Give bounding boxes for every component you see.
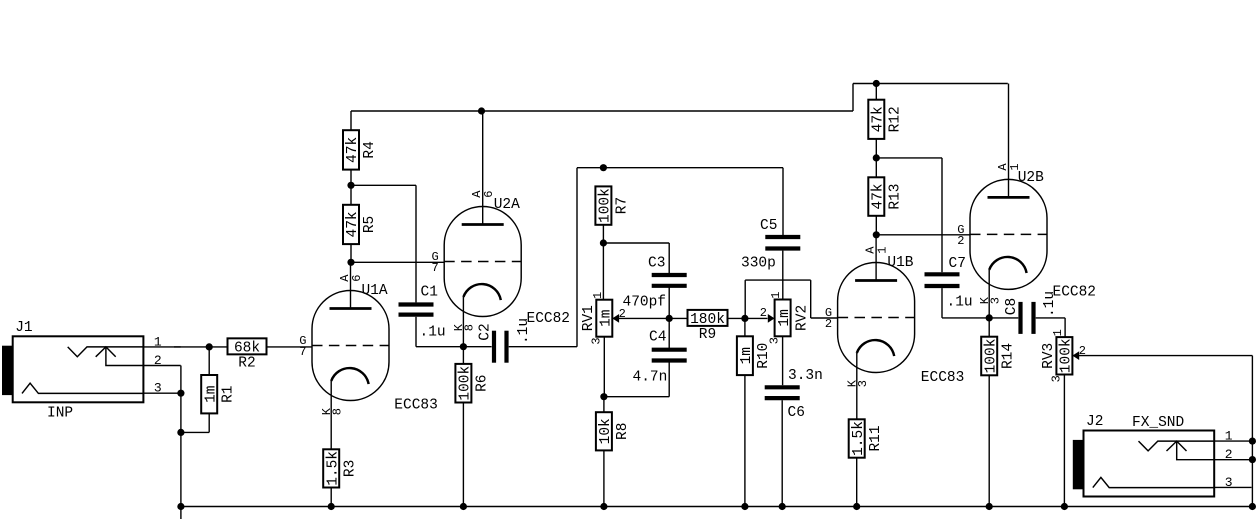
triode U1A: [299, 262, 389, 449]
svg-text:R5: R5: [362, 216, 378, 233]
junction R5/U1A anode/U2A grid: [347, 259, 354, 266]
svg-text:2: 2: [1225, 447, 1233, 462]
wire: [852, 84, 854, 112]
svg-text:7: 7: [299, 345, 306, 359]
U2B envelope: [970, 179, 1047, 289]
J1 pin 3: [143, 392, 180, 394]
wire: [853, 83, 1008, 85]
svg-text:2: 2: [825, 317, 832, 331]
J1 pin 1: [143, 346, 180, 348]
resistor R3 (1.5k): [323, 449, 358, 506]
wire: [941, 158, 943, 272]
U1A cathode: [331, 368, 368, 384]
U2B cathode lead: [988, 270, 990, 318]
wire: [810, 280, 812, 318]
J2 pin 1: [1214, 440, 1251, 442]
RV3 wiper arrow: [1072, 351, 1079, 360]
U1A cathode lead: [330, 381, 332, 449]
svg-text:2: 2: [760, 306, 767, 320]
junction R13/U1B anode/U2B grid: [873, 231, 880, 238]
wire: [350, 111, 352, 130]
svg-text:R1: R1: [220, 385, 236, 402]
wire: [180, 366, 182, 507]
svg-text:ECC82: ECC82: [1053, 285, 1097, 301]
capacitor C7 (.1u): [925, 256, 973, 311]
resistor R14 (100k): [981, 318, 1016, 507]
U2B cathode: [989, 257, 1026, 273]
J2 tip contact: [1139, 441, 1215, 451]
capacitor C6 (3.3n): [765, 368, 823, 421]
wire: [1251, 356, 1253, 507]
junction GND rail left: [177, 503, 184, 510]
svg-text:47k: 47k: [871, 106, 887, 132]
U1B cathode lead: [856, 353, 858, 419]
svg-text:R9: R9: [699, 327, 716, 343]
wire: [668, 243, 670, 275]
junction U2B cathode/R14/C8: [986, 314, 993, 321]
resistor R8 (10k): [596, 397, 631, 507]
U2B grid: [970, 233, 1047, 235]
junction R1 bottom: [177, 429, 184, 436]
J2 body: [1084, 431, 1215, 497]
junction C6/GND: [779, 503, 786, 510]
svg-text:1: 1: [769, 292, 783, 299]
svg-text:RV3: RV3: [1041, 343, 1057, 369]
wire: [1072, 355, 1252, 357]
svg-text:47k: 47k: [345, 211, 361, 237]
junction RV1 wiper/C3/C4/R9: [666, 315, 673, 322]
junction R9/R10/RV2 wiper/C5: [741, 315, 748, 322]
svg-text:.1u: .1u: [516, 318, 532, 344]
resistor R2 (68k): [228, 338, 267, 371]
connector J1 (INP jack): [2, 320, 181, 403]
U2A anode lead: [482, 111, 484, 225]
junction R7 top: [600, 164, 607, 171]
svg-text:3: 3: [589, 337, 603, 344]
svg-text:U1A: U1A: [362, 283, 388, 299]
resistor R4 (47k): [343, 130, 378, 169]
resistor R11 (1.5k): [849, 419, 884, 506]
wire: [1064, 318, 1066, 337]
svg-text:3: 3: [1050, 375, 1064, 382]
svg-text:1m: 1m: [203, 385, 219, 402]
svg-text:R14: R14: [1000, 343, 1016, 369]
junction R6/GND: [460, 503, 467, 510]
wire: [602, 243, 604, 300]
wire: [782, 251, 784, 300]
svg-text:470pf: 470pf: [623, 295, 667, 311]
wire: [603, 337, 605, 397]
svg-text:J1: J1: [15, 320, 32, 336]
svg-text:68k: 68k: [234, 341, 260, 357]
svg-text:FX_SND: FX_SND: [1132, 415, 1184, 431]
wire: [668, 361, 670, 397]
wire: [174, 346, 228, 348]
J1 tip contact: [68, 347, 144, 357]
junction R4/R5/C1: [347, 182, 354, 189]
svg-text:R11: R11: [868, 425, 884, 451]
wire: [350, 244, 352, 262]
svg-text:C2: C2: [477, 323, 493, 340]
junction R8/GND: [600, 503, 607, 510]
svg-text:3: 3: [154, 381, 162, 396]
svg-text:3: 3: [768, 337, 782, 344]
wire: [875, 216, 877, 235]
potentiometer RV1 (1m): [581, 292, 626, 345]
svg-text:47k: 47k: [345, 137, 361, 163]
resistor R6 (100k): [455, 347, 490, 507]
svg-text:3.3n: 3.3n: [788, 368, 823, 384]
capacitor C2 (.1u): [477, 318, 532, 363]
J2 switch arrow: [1167, 441, 1187, 451]
svg-text:100k: 100k: [458, 366, 474, 401]
junction R12 top: [873, 80, 880, 87]
svg-text:8: 8: [331, 408, 345, 415]
svg-text:C4: C4: [649, 330, 666, 346]
wire: [267, 346, 313, 348]
svg-text:1.5k: 1.5k: [851, 421, 867, 456]
svg-text:R7: R7: [615, 197, 631, 214]
svg-text:8: 8: [463, 324, 477, 331]
U1B plate: [855, 279, 897, 282]
wire: [416, 346, 492, 348]
triode U2B: [957, 84, 1047, 318]
wire: [744, 280, 746, 318]
wire: [603, 242, 669, 244]
svg-text:ECC83: ECC83: [394, 397, 438, 413]
wire: [612, 317, 687, 319]
svg-text:1: 1: [875, 246, 889, 253]
connector J2 (FX_SND jack): [1073, 414, 1252, 497]
junction J2 pin2: [1249, 456, 1256, 463]
J2 pin 2: [1214, 459, 1251, 461]
wire: [875, 139, 877, 158]
svg-text:6: 6: [350, 274, 364, 281]
J2 pin 3: [1214, 486, 1251, 488]
capacitor C8 (.1u): [1004, 291, 1058, 334]
svg-text:100k: 100k: [983, 339, 999, 374]
resistor R10 (1m): [737, 318, 772, 506]
potentiometer RV2 (1m): [760, 292, 811, 345]
junction U2A cathode/R6: [460, 343, 467, 350]
wire: [351, 110, 853, 112]
wire: [1063, 375, 1065, 507]
svg-text:1: 1: [1225, 429, 1233, 444]
svg-text:R2: R2: [238, 356, 255, 372]
wire: [351, 184, 416, 186]
svg-text:ECC82: ECC82: [527, 311, 571, 327]
U1B envelope: [838, 263, 915, 373]
wire: [941, 288, 943, 318]
U1A envelope: [312, 291, 389, 401]
svg-text:R12: R12: [888, 106, 904, 132]
U2A envelope: [444, 207, 521, 317]
wire: [350, 170, 352, 186]
svg-text:1m: 1m: [777, 309, 793, 326]
svg-text:3: 3: [856, 380, 870, 387]
J1 ring contact: [22, 383, 143, 393]
wire: [876, 157, 942, 159]
U1B anode lead: [875, 235, 877, 281]
svg-text:C1: C1: [421, 285, 438, 301]
svg-text:.1u: .1u: [1042, 291, 1058, 317]
junction R7/RV1/C3: [600, 239, 607, 246]
svg-text:1: 1: [154, 334, 162, 349]
wire: [208, 413, 210, 432]
junction J2 pin1: [1249, 438, 1256, 445]
svg-text:R13: R13: [888, 183, 904, 209]
capacitor C3 (470pf): [623, 256, 687, 311]
svg-text:.1u: .1u: [420, 325, 446, 341]
svg-text:1m: 1m: [739, 347, 755, 364]
wire: [576, 168, 578, 347]
svg-text:J2: J2: [1086, 414, 1103, 430]
svg-text:1.5k: 1.5k: [325, 451, 341, 486]
resistor R12 (47k): [868, 84, 903, 139]
junction R11/GND: [853, 503, 860, 510]
junction U2A anode: [478, 107, 485, 114]
junction J1.1/R1/R2: [206, 343, 213, 350]
svg-text:100k: 100k: [598, 188, 614, 223]
U1B cathode: [857, 340, 894, 356]
U2A cathode: [463, 284, 500, 300]
wire: [602, 225, 604, 243]
svg-text:100k: 100k: [1059, 338, 1075, 373]
svg-text:C3: C3: [648, 256, 665, 272]
resistor R5 (47k): [343, 185, 378, 244]
svg-text:C8: C8: [1004, 298, 1020, 315]
resistor R1 (1m): [201, 347, 236, 414]
wire: [415, 317, 417, 347]
RV1 wiper arrow: [612, 314, 619, 323]
wire: [811, 317, 838, 319]
svg-text:3: 3: [1225, 475, 1233, 490]
svg-text:C6: C6: [788, 405, 805, 421]
svg-text:2: 2: [957, 234, 964, 248]
U2B anode lead: [1008, 84, 1010, 198]
svg-text:C7: C7: [949, 256, 966, 272]
triode U1B: [825, 235, 915, 419]
junction R10/GND: [741, 503, 748, 510]
wire: [415, 185, 417, 302]
wire: [942, 317, 1018, 319]
svg-text:1: 1: [591, 292, 605, 299]
junction RV3.3/GND rail: [1061, 503, 1068, 510]
J2 sleeve block: [1073, 440, 1083, 489]
svg-text:2: 2: [154, 353, 162, 368]
wire: [577, 167, 783, 169]
junction J1.3 to pin2 column: [177, 390, 184, 397]
svg-text:R8: R8: [615, 423, 631, 440]
svg-text:RV2: RV2: [794, 305, 810, 331]
junction RV1.3/R8/C4: [600, 393, 607, 400]
U1B grid: [838, 317, 915, 319]
capacitor C1 (.1u): [399, 285, 446, 341]
U2A plate: [462, 223, 504, 226]
svg-text:INP: INP: [47, 406, 73, 422]
resistor R13 (47k): [868, 158, 903, 216]
junction R3/GND: [328, 503, 335, 510]
J2 ring contact: [1093, 477, 1214, 487]
ground stub below rail: [180, 507, 182, 519]
wire: [181, 431, 209, 433]
svg-text:R4: R4: [362, 141, 378, 158]
svg-text:C5: C5: [760, 218, 777, 234]
wire: [782, 336, 784, 385]
svg-text:.1u: .1u: [947, 295, 973, 311]
svg-text:R10: R10: [756, 343, 772, 369]
J1 sleeve block: [2, 346, 12, 395]
svg-text:180k: 180k: [690, 312, 725, 328]
J1 body: [13, 336, 144, 402]
RV2 wiper arrow: [768, 314, 775, 323]
wire: [351, 261, 444, 263]
junction R12/R13/C7: [873, 154, 880, 161]
wire: [745, 279, 811, 281]
wire: [668, 286, 670, 350]
svg-text:7: 7: [431, 261, 438, 275]
svg-text:1: 1: [1051, 329, 1065, 336]
wire: [604, 396, 669, 398]
wire: [782, 168, 784, 235]
capacitor C5 (330p): [741, 218, 800, 272]
junction J2 pin3/GND rail: [1249, 503, 1256, 510]
svg-text:4.7n: 4.7n: [633, 369, 668, 385]
resistor R9 (180k): [688, 310, 728, 343]
J1 pin 2: [143, 365, 180, 367]
svg-text:R3: R3: [342, 460, 358, 477]
triode U2A: [431, 111, 521, 347]
wire: [509, 346, 577, 348]
U2A cathode lead: [462, 297, 464, 347]
resistor R7 (100k): [595, 186, 630, 224]
svg-text:330p: 330p: [741, 256, 776, 272]
U1A anode lead: [350, 262, 352, 308]
wire: [876, 234, 970, 236]
svg-text:RV1: RV1: [581, 305, 597, 331]
U1A grid: [312, 345, 389, 347]
svg-text:ECC83: ECC83: [921, 370, 965, 386]
svg-text:3: 3: [989, 297, 1003, 304]
potentiometer RV3 (100k): [1041, 329, 1086, 382]
junction R14/GND: [986, 503, 993, 510]
capacitor C4 (4.7n): [633, 330, 687, 386]
svg-text:U2B: U2B: [1018, 170, 1044, 186]
svg-text:U1B: U1B: [887, 255, 913, 271]
U2A grid: [444, 261, 521, 263]
J1 switch arrow: [96, 347, 116, 357]
U2B plate: [988, 196, 1030, 199]
svg-text:U2A: U2A: [494, 197, 520, 213]
wire: [781, 400, 783, 506]
ground rail: [181, 506, 1253, 508]
svg-text:1m: 1m: [599, 309, 615, 326]
svg-text:R6: R6: [475, 374, 491, 391]
U1A plate: [330, 307, 372, 310]
wire: [728, 317, 768, 319]
svg-text:10k: 10k: [598, 418, 614, 444]
svg-text:47k: 47k: [871, 183, 887, 209]
wire: [1036, 317, 1065, 319]
